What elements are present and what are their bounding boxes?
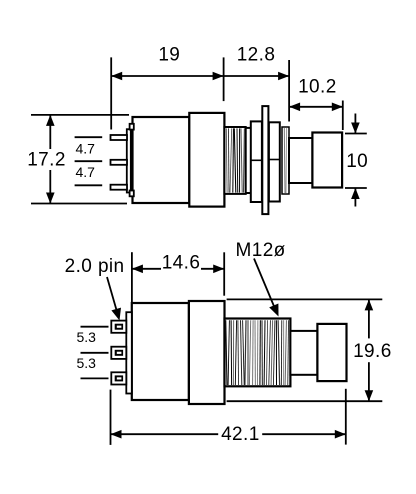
- dim 42.1 left extension line: [110, 390, 112, 445]
- dim 42.1 right extension line: [345, 389, 347, 445]
- dim 19 line: [111, 75, 223, 77]
- pin pitch tick 2: [75, 160, 103, 162]
- terminal pin 2 (top view): [111, 160, 128, 165]
- front hex nut (top view): [251, 121, 262, 202]
- svg-text:19.6: 19.6: [353, 341, 392, 362]
- dim 19.6 bottom extension line: [227, 400, 383, 402]
- dim 19/12.8 shared extension line: [223, 57, 225, 101]
- leader to thread: [254, 259, 276, 312]
- svg-text:2.0 pin: 2.0 pin: [65, 256, 125, 277]
- dim 19.6 line: [368, 299, 370, 338]
- terminal pin 2 (bottom view): [111, 347, 126, 359]
- switch body (bottom view): [132, 303, 189, 400]
- label 19.6: [353, 341, 392, 362]
- dim 10.2 line: [289, 106, 343, 108]
- pin spacing tick 3: [81, 377, 109, 379]
- pin spacing tick 2: [81, 352, 109, 354]
- svg-text:5.3: 5.3: [76, 355, 96, 371]
- svg-text:4.7: 4.7: [75, 141, 95, 157]
- pin pitch tick 1: [75, 136, 103, 138]
- leader to pin: [107, 277, 117, 310]
- dim 19.6 top extension line: [227, 298, 383, 300]
- plunger shaft (bottom view): [290, 331, 317, 375]
- dim 10 top arrow: [354, 114, 356, 134]
- terminal pin 3 (bottom view): [111, 372, 126, 384]
- exposed thread end (top view): [282, 127, 289, 194]
- push button (bottom view): [317, 324, 346, 381]
- rear hex nut (top view): [269, 122, 280, 201]
- svg-text:4.7: 4.7: [75, 164, 95, 180]
- dim 12.8/10.2 shared extension line: [288, 60, 290, 122]
- dim 12.8 line: [224, 75, 290, 77]
- mounting flange (top view): [189, 113, 224, 207]
- svg-text:12.8: 12.8: [237, 45, 276, 66]
- smooth neck between bushing and front nut: [246, 127, 251, 129]
- panel washer (top view): [262, 106, 268, 214]
- svg-text:14.6: 14.6: [162, 253, 201, 274]
- threaded bushing (top view): [224, 127, 245, 194]
- dim 17.2 bottom extension line: [31, 203, 127, 205]
- dim 10 bottom extension line: [345, 187, 367, 189]
- dim 17.2 line: [49, 115, 51, 149]
- terminal pin 3 (top view): [111, 185, 128, 190]
- dim 14.6 right extension line: [223, 252, 225, 295]
- svg-text:M12ø: M12ø: [236, 240, 286, 261]
- pin base column (top view): [127, 129, 131, 192]
- dim 19 left extension line: [110, 57, 112, 129]
- pin column bottom tab: [130, 191, 134, 197]
- dim 14.6 left extension line: [131, 252, 133, 303]
- svg-text:42.1: 42.1: [221, 424, 260, 445]
- svg-text:10.2: 10.2: [298, 77, 337, 98]
- pin column top tab: [130, 124, 134, 130]
- terminal pin 1 (bottom view): [111, 321, 126, 333]
- svg-text:17.2: 17.2: [27, 149, 66, 170]
- dim 17.2 top extension line: [31, 114, 129, 116]
- dim 14.6 line: [132, 268, 161, 270]
- dim 10 bottom arrow: [354, 188, 356, 207]
- dim 10.2 right extension line: [342, 101, 344, 131]
- switch body (top view): [133, 117, 190, 203]
- threaded bushing M12 (bottom view): [225, 319, 291, 387]
- svg-text:10: 10: [346, 151, 368, 172]
- plunger shaft (top view): [289, 138, 312, 183]
- push button (top view): [312, 133, 342, 188]
- dim 10 top extension line: [345, 133, 367, 135]
- dim 42.1 line: [111, 433, 219, 435]
- pin spacing tick 1: [81, 326, 109, 328]
- terminal pin 1 (top view): [111, 135, 128, 140]
- svg-text:5.3: 5.3: [76, 329, 96, 345]
- pin base column (bottom view): [126, 312, 132, 393]
- collar flange (bottom view): [189, 301, 225, 404]
- pin pitch tick 3: [75, 184, 103, 186]
- svg-text:19: 19: [158, 45, 180, 66]
